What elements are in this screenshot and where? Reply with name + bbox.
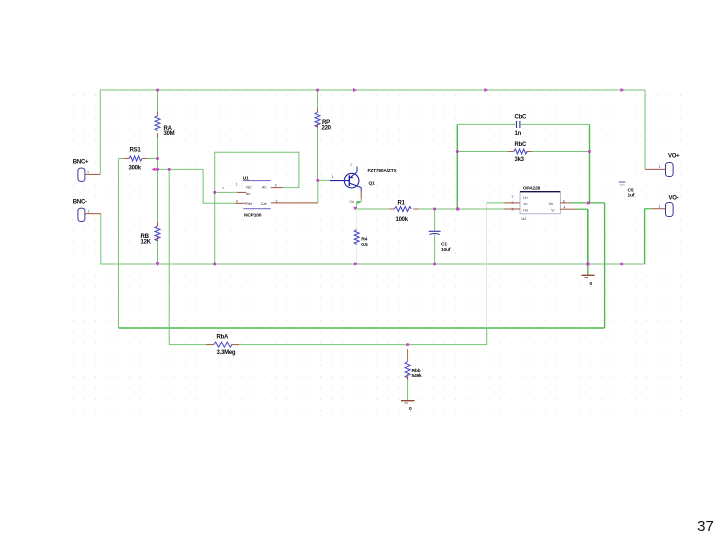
svg-text:c: c	[351, 163, 353, 167]
wire U1 pin1/pin2 net	[215, 152, 299, 264]
transistor Q1	[330, 163, 397, 205]
capacitor C1	[429, 231, 451, 253]
svg-text:Ref: Ref	[246, 202, 253, 206]
svg-text:RbA: RbA	[217, 335, 229, 341]
wire op-amp V- to rail1	[575, 209, 588, 264]
wire opamp -In faint vertical	[486, 203, 488, 328]
wire RbA row	[169, 344, 487, 346]
U2 -In stub	[487, 202, 521, 204]
connector VO-	[652, 196, 679, 217]
wire rail1 common	[100, 263, 644, 265]
wire top rail	[100, 89, 645, 91]
svg-text:C1: C1	[441, 241, 447, 247]
wire RP column	[317, 90, 319, 180]
wire RbA right vertical to rail2	[486, 328, 488, 345]
svg-text:Vo: Vo	[549, 202, 553, 206]
svg-text:C5: C5	[628, 188, 634, 194]
svg-text:1: 1	[659, 165, 661, 169]
svg-text:Q1: Q1	[369, 180, 376, 186]
svg-text:U+: U+	[523, 196, 529, 200]
svg-text:4: 4	[236, 199, 238, 203]
svg-text:U2: U2	[522, 217, 527, 221]
resistor R1	[394, 201, 411, 224]
svg-text:VO-: VO-	[669, 196, 679, 202]
svg-text:Cs: Cs	[350, 200, 355, 204]
wire op-amp output to vertical	[571, 202, 605, 204]
wire Q1 emitter down	[357, 199, 362, 210]
resistor RB	[141, 226, 161, 246]
svg-text:×: ×	[222, 186, 224, 190]
svg-text:VO+: VO+	[668, 154, 680, 160]
resistor Rbb wire to ground	[407, 374, 409, 400]
svg-text:Cat: Cat	[261, 202, 268, 206]
wire op-amp out vertical to rail2	[604, 203, 606, 328]
ground 0 bottom	[401, 401, 415, 412]
wire RA top	[157, 90, 159, 116]
capacitor CbC	[515, 115, 527, 138]
resistor RA	[155, 116, 175, 138]
svg-text:FZT790A/ZTX: FZT790A/ZTX	[368, 168, 398, 174]
junction arrows	[152, 88, 625, 266]
svg-text:3: 3	[275, 199, 277, 203]
svg-text:300k: 300k	[129, 166, 142, 172]
wire C1 column	[434, 209, 436, 264]
resistor R4	[354, 230, 368, 249]
svg-text:1: 1	[659, 205, 661, 209]
svg-text:BNC-: BNC-	[73, 200, 87, 206]
svg-text:3k3: 3k3	[515, 157, 525, 163]
wire CbC row	[457, 123, 589, 125]
wire VO- leg to rail1	[645, 209, 652, 264]
resistor RbA	[214, 335, 236, 356]
svg-text:+In: +In	[523, 208, 528, 212]
U2 V- stub	[560, 208, 575, 210]
svg-text:100k: 100k	[396, 217, 409, 223]
wire feedback left vertical	[456, 124, 458, 209]
svg-text:3.3Meg: 3.3Meg	[217, 350, 236, 356]
resistor RbC	[514, 142, 528, 163]
svg-text:1uf: 1uf	[628, 193, 635, 199]
wire RA/RS1/RB column	[157, 133, 159, 226]
svg-text:BNC+: BNC+	[73, 160, 89, 166]
wire U1 cat to Q1 base node	[318, 180, 330, 203]
wire R1 row to op-amp	[356, 208, 504, 210]
wire feedback right vertical	[589, 124, 591, 202]
page number 37	[697, 518, 714, 535]
svg-text:RS1: RS1	[130, 148, 142, 154]
op-amp U1 TL431 body	[243, 176, 271, 219]
U1 pin2 stub	[271, 183, 283, 187]
wire BNC- vertical to rail1	[100, 214, 102, 264]
svg-text:2: 2	[275, 183, 277, 187]
svg-text:7: 7	[512, 195, 514, 199]
small green arrow at Q1 emitter	[358, 201, 361, 204]
wire RS1 left vertical to rail2	[118, 159, 120, 329]
svg-text:-In: -In	[523, 202, 527, 206]
svg-text:30M: 30M	[164, 131, 175, 137]
ground 0 right	[582, 264, 595, 287]
U1 pin4 stub ref	[235, 199, 246, 203]
wire left vertical BNC+ to top rail	[99, 90, 101, 174]
wire R4 faint stubs	[356, 209, 358, 264]
U2 out stub	[560, 202, 571, 204]
svg-text:1: 1	[88, 210, 90, 214]
connector BNC+	[73, 160, 101, 182]
svg-text:An: An	[246, 192, 251, 196]
svg-text:0.5: 0.5	[361, 242, 368, 248]
svg-text:NC: NC	[246, 186, 252, 190]
svg-text:CbC: CbC	[515, 115, 527, 121]
wire VO+ leg from top rail	[644, 90, 646, 169]
resistor Rbb	[405, 361, 422, 379]
svg-text:220: 220	[322, 126, 332, 132]
svg-text:1: 1	[236, 183, 238, 187]
U1 pin3 stub cat	[271, 199, 318, 203]
svg-text:R1: R1	[398, 201, 406, 207]
resistor RP	[315, 112, 332, 131]
U1 pin1 stub	[222, 183, 246, 193]
wire row2 to RbA left vertical	[168, 169, 170, 344]
svg-text:10uf: 10uf	[441, 247, 451, 253]
capacitor C5	[619, 182, 635, 199]
resistor RS1	[119, 148, 158, 172]
svg-text:R4: R4	[361, 237, 367, 243]
svg-text:12K: 12K	[141, 240, 152, 246]
svg-text:NCP100: NCP100	[244, 213, 262, 219]
wire RB bottom to rail1	[157, 237, 159, 264]
connector BNC-	[73, 200, 101, 222]
svg-text:An: An	[262, 186, 267, 190]
wire rail2	[119, 327, 605, 329]
resistor red pin stubs	[124, 108, 532, 380]
op-amp U2 OPA228	[512, 185, 566, 220]
wire RbC row	[457, 151, 589, 153]
svg-text:1: 1	[332, 175, 334, 179]
svg-text:549k: 549k	[412, 373, 423, 379]
svg-text:OPA228: OPA228	[523, 185, 541, 191]
connector VO+	[645, 154, 680, 177]
svg-text:RbC: RbC	[515, 142, 527, 148]
wire row2 node RS1/RA/RB to U1 ref	[153, 169, 235, 203]
svg-text:1: 1	[87, 170, 89, 174]
svg-text:37: 37	[697, 518, 714, 535]
U2 +In stub	[504, 208, 520, 210]
svg-text:1n: 1n	[515, 131, 522, 137]
